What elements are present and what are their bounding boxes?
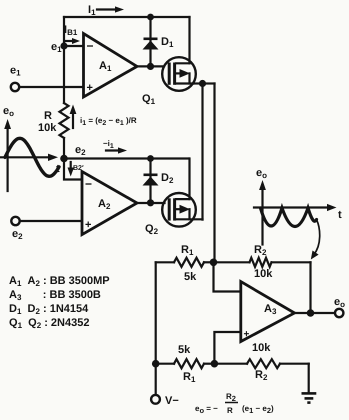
op-amp A3 [241, 282, 295, 342]
svg-text:A3 : BB 3500B: A3 : BB 3500B [9, 289, 101, 302]
parts list line D1 D2 [9, 303, 89, 316]
transistor Q1 [142, 57, 196, 106]
current arrow IB2 + e2' wire to A2 inverting input [64, 159, 84, 180]
parts list line A3 [9, 289, 101, 302]
wire R2 to ground [308, 364, 310, 393]
wire e2 rail [64, 157, 189, 159]
svg-text:−: − [85, 177, 92, 191]
current arrow -i1 [103, 139, 127, 154]
junction top rail / D1 [147, 14, 154, 21]
svg-text:10k: 10k [252, 342, 271, 354]
wire e1' branch from rail [63, 17, 65, 46]
svg-text:R: R [227, 406, 233, 415]
svg-text:−: − [87, 39, 94, 53]
wire e1' down to resistor R [63, 46, 65, 103]
wire A3 + input [214, 332, 240, 364]
waveform inset input sine: axes [0, 105, 60, 191]
wire Q2 source to bus [193, 218, 202, 220]
resistor R1 top 5k [156, 244, 214, 283]
wire A2 output to Q2 gate [137, 202, 165, 204]
node e2' [60, 144, 86, 162]
svg-text:A1 A2 : BB 3500MP: A1 A2 : BB 3500MP [9, 275, 110, 288]
svg-text:R: R [44, 110, 52, 122]
wire R bottom to e2' node [63, 138, 65, 159]
svg-text:+: + [87, 82, 93, 94]
wire e2 input to A2 + [20, 220, 82, 222]
parts list line A1 A2 [9, 275, 110, 288]
wire A3 output [295, 312, 336, 314]
svg-text:+: + [244, 329, 250, 340]
resistor R 10k [38, 103, 69, 138]
current arrow I1 [88, 4, 124, 17]
node A2 output / D2 anode [147, 199, 154, 206]
terminal e1 [10, 65, 21, 92]
resistor R2 bottom 10k [214, 342, 308, 382]
ground [302, 393, 317, 402]
svg-text:+: + [85, 219, 91, 231]
resistor R2 top 10k [214, 244, 311, 280]
op-amp A2 [82, 172, 137, 235]
waveform inset input sine: curve [5, 138, 59, 176]
svg-text:Q1 Q2 : 2N4352: Q1 Q2 : 2N4352 [9, 317, 89, 330]
svg-text:D1 D2 : 1N4154: D1 D2 : 1N4154 [9, 303, 89, 316]
wire Q1 drain to top rail [188, 17, 190, 63]
terminal e_o output [334, 296, 345, 317]
svg-text:10k: 10k [254, 268, 273, 280]
svg-text:V−: V− [165, 395, 179, 407]
wire V- riser [155, 262, 157, 395]
resistor R1 bottom 5k [156, 344, 215, 384]
node e1' [51, 41, 68, 54]
wire e1 input to A1 + [19, 86, 83, 88]
node Q1 source junction [199, 80, 206, 87]
wire Q2 drain to e2 rail [188, 159, 190, 200]
wire e1' to A1 inverting input [64, 45, 84, 47]
svg-text:10k: 10k [38, 122, 57, 134]
wire A1 output to Q1 gate [137, 65, 164, 67]
wire source bus down to Q2 source [201, 84, 203, 220]
node A3 summing junction [210, 259, 218, 267]
equation e_o = -(R2/R)(e1-e2) [195, 392, 274, 415]
wire source stub right [203, 82, 215, 84]
annotation arrow waveform to feedback node [311, 220, 320, 260]
node bottom rail / A3 + branch [211, 360, 219, 368]
diode D2 [143, 159, 174, 203]
node bottom rail left [152, 360, 160, 368]
current arrow i1 with formula [70, 105, 137, 129]
waveform inset output: full-wave scallops [261, 208, 317, 227]
wire feedback down to output [309, 262, 311, 313]
wire top rail [64, 16, 190, 18]
svg-text:5k: 5k [178, 344, 191, 356]
current arrow IB1 [64, 24, 80, 44]
op-amp A1 [84, 34, 138, 98]
svg-text:t: t [338, 209, 342, 221]
node A1 output / D1 anode [147, 63, 154, 70]
diode D1 [143, 17, 174, 66]
node output / feedback [307, 309, 315, 317]
svg-text:5k: 5k [184, 271, 197, 283]
wire Q1 source to junction [193, 82, 202, 84]
junction e2 rail / D2 [147, 155, 154, 162]
wire summing bus down to A3 node [213, 84, 215, 263]
terminal e2 [11, 217, 23, 241]
parts list line Q1 Q2 [9, 317, 89, 330]
wire summing node to A3 inverting input [214, 262, 241, 291]
waveform inset output: axes [254, 167, 342, 245]
transistor Q2 [145, 193, 196, 236]
terminal V- [151, 395, 179, 407]
